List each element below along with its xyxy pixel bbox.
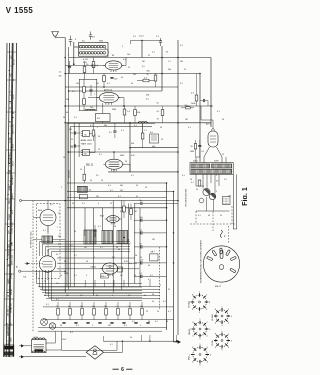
wire ladder joins [166, 203, 178, 263]
svg-text:0,1: 0,1 [118, 196, 121, 198]
title V 1555 [6, 6, 34, 15]
svg-text:5k: 5k [128, 306, 130, 308]
svg-text:0,1: 0,1 [182, 175, 185, 177]
svg-text:0,1: 0,1 [152, 251, 155, 253]
wire v4 base [204, 147, 222, 163]
trimmer C5 [133, 36, 162, 46]
svg-text:0,1: 0,1 [110, 344, 113, 346]
resistor R10 [134, 106, 137, 123]
label sub vals [216, 181, 231, 198]
wire corner y350 [62, 341, 117, 350]
svg-text:0,1: 0,1 [43, 230, 46, 232]
lamp LP2 [49, 323, 55, 329]
svg-text:0,1: 0,1 [121, 130, 124, 132]
label S4 [212, 340, 214, 346]
label S1 [189, 300, 191, 308]
socket big viewed from below [203, 246, 239, 282]
svg-text:5k: 5k [101, 180, 103, 182]
label V4 [206, 123, 211, 126]
label waveband [69, 170, 71, 178]
wire v3 [114, 152, 130, 172]
resistor R5 [154, 74, 157, 88]
svg-text:2: 2 [61, 187, 62, 189]
svg-text:2: 2 [94, 257, 95, 259]
component mid [150, 252, 158, 261]
svg-text:0,1: 0,1 [56, 283, 59, 285]
resistor R50k [181, 105, 194, 109]
svg-text:2k: 2k [184, 69, 186, 71]
svg-text:0,02: 0,02 [131, 155, 135, 157]
svg-text:0,1: 0,1 [74, 255, 77, 257]
wire nest lower [37, 270, 143, 301]
switch bank SW3 [42, 236, 53, 243]
svg-text:5k: 5k [152, 301, 154, 303]
svg-text:25: 25 [168, 289, 170, 291]
wire switch stubs [33, 239, 65, 241]
svg-text:ECH 4: ECH 4 [91, 66, 98, 68]
capacitor C4 [110, 78, 113, 79]
wire L5 stubs [79, 123, 95, 157]
resistor Rk [191, 140, 197, 157]
wire v2 leads [88, 98, 125, 107]
wire bus y91 [69, 90, 162, 92]
svg-text:0,1: 0,1 [163, 301, 166, 303]
label T1 [193, 160, 219, 162]
svg-text:UBL21: UBL21 [189, 328, 191, 335]
svg-text:1,1: 1,1 [168, 61, 171, 63]
socket S5 [189, 344, 212, 367]
box oscillator [96, 114, 111, 122]
wire left col verticals [69, 47, 140, 296]
svg-text:0,1: 0,1 [129, 263, 132, 265]
svg-text:1,1: 1,1 [56, 306, 59, 308]
svg-text:0,1: 0,1 [188, 127, 191, 129]
svg-text:0,1: 0,1 [123, 59, 126, 61]
wire bus y200.5 [19, 199, 178, 201]
svg-text:0,1: 0,1 [99, 154, 102, 156]
svg-text:0,1: 0,1 [128, 295, 131, 297]
label top sockets [215, 286, 222, 288]
svg-text:30: 30 [166, 52, 168, 54]
wire bus y341 [103, 340, 179, 343]
coil L3 [85, 109, 95, 110]
svg-text:50: 50 [166, 321, 168, 323]
svg-text:1M: 1M [84, 247, 87, 249]
wire dashed x159.5 [159, 247, 161, 310]
svg-text:30k: 30k [120, 185, 123, 187]
svg-text:TEAST 11005: TEAST 11005 [81, 143, 92, 146]
coil L1/L2 antenna block [79, 43, 109, 57]
wire rail x211 [210, 58, 212, 128]
svg-text:0,1: 0,1 [198, 215, 201, 217]
tone network [191, 174, 230, 204]
svg-text:0,1: 0,1 [82, 203, 85, 205]
svg-text:6: 6 [121, 367, 124, 373]
wire left rail x65 [64, 38, 66, 293]
resistor R12 [141, 133, 144, 148]
coil L5b [81, 150, 90, 156]
svg-text:20: 20 [121, 77, 123, 79]
svg-text:1M: 1M [228, 196, 231, 198]
svg-text:ANTRIEB 8: ANTRIEB 8 [7, 323, 10, 336]
svg-text:1k: 1k [80, 169, 82, 171]
capacitor ladder y246.9 [134, 244, 167, 249]
arrow mains right [174, 341, 181, 344]
wire t1 leads [196, 157, 227, 163]
svg-text:5084: 5084 [64, 273, 68, 275]
svg-text:20: 20 [160, 127, 162, 129]
svg-text:0,1: 0,1 [100, 247, 103, 249]
wire bus y197.5 [67, 197, 167, 199]
svg-text:2k: 2k [74, 231, 76, 233]
resistor R11 [161, 106, 164, 123]
svg-text:50k: 50k [133, 74, 136, 76]
svg-text:20: 20 [145, 187, 147, 189]
svg-text:0,1: 0,1 [110, 190, 113, 192]
block crystal [150, 132, 159, 143]
svg-text:5084: 5084 [99, 41, 103, 43]
label mid2 [152, 139, 164, 148]
socket S4 [212, 331, 233, 352]
svg-text:498 M: 498 M [11, 289, 13, 295]
svg-text:50: 50 [72, 203, 74, 205]
svg-text:50: 50 [114, 226, 116, 228]
box IF can 1 [79, 79, 97, 110]
caption Fig. 1 [240, 187, 249, 206]
svg-text:6,2 K: 6,2 K [10, 137, 12, 143]
svg-text:0,1: 0,1 [108, 185, 111, 187]
svg-text:0,1: 0,1 [46, 304, 49, 306]
wire bottom bus 3 [44, 295, 160, 297]
label mid vals [127, 103, 160, 121]
svg-text:50: 50 [190, 179, 192, 181]
svg-text:50k: 50k [180, 61, 183, 63]
wire v1 gridline [65, 64, 105, 66]
svg-text:2x1,5: 2x1,5 [139, 36, 144, 38]
resistor R16 [130, 203, 133, 220]
wire rail x178 [177, 40, 179, 335]
wire bus y152 [67, 151, 178, 153]
svg-text:WIEN 580: WIEN 580 [11, 302, 13, 312]
svg-text:5084: 5084 [112, 109, 116, 111]
svg-text:25: 25 [58, 213, 60, 215]
svg-text:0,1: 0,1 [217, 111, 220, 113]
svg-text:8 M: 8 M [10, 170, 12, 174]
svg-text:1M: 1M [96, 83, 99, 85]
capacitor C3 [68, 61, 71, 74]
svg-text:30: 30 [90, 180, 92, 182]
socket S3 [190, 319, 211, 340]
svg-text:0,1: 0,1 [128, 243, 131, 245]
capacitor ladder y276.4 [134, 273, 167, 278]
label big socket [200, 240, 203, 283]
socket S2 [212, 307, 233, 328]
svg-text:6k8: 6k8 [146, 95, 149, 97]
svg-text:50: 50 [135, 255, 137, 257]
resistor R7 [83, 79, 86, 98]
svg-text:Fig. 1: Fig. 1 [240, 187, 247, 206]
svg-text:4–20: 4–20 [83, 59, 89, 61]
label V7 [100, 216, 105, 218]
svg-text:3k: 3k [68, 306, 70, 308]
wire rail x173.5 [173, 192, 175, 343]
svg-text:25: 25 [148, 55, 150, 57]
svg-text:BRUX 322: BRUX 322 [12, 174, 14, 185]
svg-text:AMST 205: AMST 205 [12, 123, 15, 134]
label V1 [91, 66, 98, 68]
svg-text:EBL21: EBL21 [215, 286, 222, 288]
wire top jumper [131, 40, 163, 44]
svg-text:UY21: UY21 [212, 340, 214, 346]
svg-text:M 60: M 60 [8, 278, 10, 284]
svg-text:M 194: M 194 [13, 58, 15, 65]
box small [79, 194, 87, 198]
svg-text:0,1: 0,1 [74, 117, 77, 119]
wire bus y73.5 [65, 73, 200, 75]
svg-text:UBL21: UBL21 [91, 267, 97, 269]
svg-text:30k: 30k [168, 69, 171, 71]
label V8 left [91, 267, 97, 269]
svg-text:0,5: 0,5 [132, 321, 135, 323]
svg-text:2: 2 [70, 195, 71, 197]
misc value labels [43, 36, 227, 347]
svg-text:6,8: 6,8 [92, 37, 95, 39]
svg-text:25: 25 [222, 154, 224, 156]
svg-text:50: 50 [44, 295, 46, 297]
svg-text:5k: 5k [136, 196, 138, 198]
svg-text:6,8: 6,8 [69, 129, 72, 131]
wire bus y183 [67, 182, 167, 184]
svg-text:100: 100 [76, 83, 79, 85]
svg-text:1M: 1M [108, 325, 111, 327]
svg-text:UCH21: UCH21 [189, 300, 191, 308]
arrow pickup [25, 262, 43, 264]
tube V3 EBL21 [103, 159, 124, 171]
wire nest upper [40, 242, 131, 257]
svg-text:POTENTIOM. 8652: POTENTIOM. 8652 [31, 232, 33, 249]
label L5a [81, 139, 92, 142]
capacitor row bottom [62, 323, 149, 324]
svg-text:50: 50 [96, 295, 98, 297]
svg-text:2M: 2M [66, 295, 69, 297]
svg-text:0,1: 0,1 [180, 83, 183, 85]
tube V4 output [208, 128, 218, 147]
wire osc [102, 103, 104, 123]
label V8 [101, 274, 109, 278]
svg-text:0,02: 0,02 [120, 211, 124, 213]
svg-text:60: 60 [66, 112, 68, 114]
svg-text:2: 2 [92, 325, 93, 327]
svg-text:160: 160 [90, 107, 93, 109]
wire drops into bus [85, 280, 150, 287]
arrow mains in2 [19, 356, 86, 359]
svg-text:6,3: 6,3 [70, 332, 73, 334]
svg-text:1k2: 1k2 [80, 306, 83, 308]
svg-text:3: 3 [68, 55, 69, 57]
svg-text:50: 50 [208, 215, 210, 217]
svg-text:V 1555: V 1555 [6, 6, 34, 15]
svg-text:2M: 2M [104, 306, 107, 308]
wire rail x142 top [141, 40, 143, 58]
switch bank SW2 [102, 231, 113, 244]
wire rail x166.5 [166, 183, 168, 330]
label 30k [82, 41, 85, 43]
svg-text:0,1: 0,1 [107, 83, 110, 85]
resistor R9 [123, 106, 126, 123]
svg-text:0,1: 0,1 [80, 295, 83, 297]
svg-text:5k6: 5k6 [131, 143, 134, 145]
svg-text:19 M: 19 M [12, 161, 14, 166]
svg-text:0,1: 0,1 [56, 299, 59, 301]
svg-text:T.A.: T.A. [23, 276, 27, 279]
svg-text:0,1: 0,1 [98, 226, 101, 228]
svg-text:1M: 1M [134, 211, 137, 213]
svg-text:1,5: 1,5 [59, 72, 62, 74]
svg-text:1M: 1M [142, 61, 145, 63]
svg-text:5084: 5084 [190, 151, 194, 153]
label col1 [147, 71, 151, 77]
svg-text:50k: 50k [92, 306, 95, 308]
wire diamond right [104, 341, 123, 352]
svg-text:0,5: 0,5 [109, 132, 112, 134]
resistor R1 [83, 61, 86, 79]
svg-text:1k: 1k [140, 257, 142, 259]
svg-text:1M: 1M [63, 157, 66, 159]
svg-text:25: 25 [134, 275, 136, 277]
svg-text:6,8: 6,8 [112, 257, 115, 259]
svg-text:5k: 5k [56, 254, 58, 256]
capacitor Ck [198, 140, 205, 157]
svg-text:ECH 21: ECH 21 [104, 90, 113, 92]
svg-text:25: 25 [71, 139, 73, 141]
wire mains leads [46, 331, 62, 350]
wire rail x162 [161, 46, 163, 91]
capacitor ladder y232.9 [134, 230, 167, 235]
tube V1 ECH4 [103, 61, 124, 72]
wire v1 plate [122, 58, 126, 66]
antenna A1 [52, 32, 65, 38]
wire bus y87 [65, 86, 178, 88]
svg-text:50: 50 [148, 321, 150, 323]
label V3 [86, 165, 94, 167]
squiggle mark [220, 230, 226, 238]
svg-text:TROCKEN GLEICHR.: TROCKEN GLEICHR. [186, 188, 188, 207]
svg-text:AZ 1: AZ 1 [206, 123, 211, 126]
svg-text:0,1: 0,1 [152, 52, 155, 54]
svg-text:0,1: 0,1 [90, 125, 93, 127]
capacitor C8 [70, 144, 81, 147]
wire bus y147.7 [130, 147, 178, 149]
svg-text:30k: 30k [104, 125, 107, 127]
capacitor ladder y203.4 [134, 200, 167, 205]
wire bottom bus y327.7 [38, 327, 167, 329]
svg-text:MW: MW [11, 242, 13, 246]
wire dashed to socket [213, 212, 229, 244]
svg-text:0,1: 0,1 [180, 45, 183, 47]
svg-text:2M: 2M [66, 99, 69, 101]
svg-text:0,1: 0,1 [134, 125, 137, 127]
svg-text:5: 5 [140, 325, 141, 327]
svg-text:50: 50 [136, 185, 138, 187]
svg-text:2: 2 [216, 175, 217, 177]
wire rail x130 [129, 123, 131, 172]
svg-text:50: 50 [222, 119, 224, 121]
box IF shield frame [67, 123, 155, 286]
svg-text:0,1: 0,1 [155, 321, 158, 323]
box tuning dashed [37, 204, 61, 279]
svg-text:4m: 4m [89, 190, 92, 192]
coil L5a [81, 131, 90, 137]
wire r4 [137, 80, 155, 82]
svg-text:50k: 50k [185, 105, 188, 107]
capacitor ladder y220.2 [134, 217, 167, 222]
capacitor C10 [93, 225, 96, 237]
svg-text:5k: 5k [144, 295, 146, 297]
svg-text:BERO 356: BERO 356 [11, 254, 13, 265]
svg-text:50k: 50k [59, 76, 62, 78]
wire dashed tuning [32, 201, 34, 333]
svg-text:KG 4: KG 4 [9, 214, 11, 220]
svg-text:0,1: 0,1 [50, 204, 53, 206]
svg-text:25: 25 [128, 67, 130, 69]
svg-text:50k: 50k [58, 236, 61, 238]
wire bottom bus 2 [42, 292, 160, 294]
svg-text:0,2: 0,2 [142, 66, 145, 68]
svg-text:5: 5 [86, 275, 87, 277]
terminal P [16, 266, 65, 272]
svg-text:0,5: 0,5 [96, 175, 99, 177]
svg-text:WELLEN: WELLEN [69, 170, 71, 178]
wire bottom bus y331.2 [38, 330, 162, 332]
svg-text:5: 5 [122, 46, 123, 48]
svg-text:5089: 5089 [120, 155, 124, 157]
label S2 [212, 313, 214, 321]
wire bus y106 [65, 105, 213, 107]
arrow mains in1 [19, 345, 32, 348]
wire v4 top [201, 106, 213, 128]
jack J1 diamond [86, 346, 103, 359]
svg-text:50: 50 [71, 147, 73, 149]
capacitor C6 [200, 99, 208, 106]
svg-text:ROHRENFASSUNG VON UNTEN GESEHE: ROHRENFASSUNG VON UNTEN GESEHEN [200, 240, 203, 283]
svg-text:50: 50 [60, 325, 62, 327]
wire stub x142 mid [142, 123, 144, 133]
svg-text:LOND 1500: LOND 1500 [12, 222, 14, 234]
svg-text:2k: 2k [130, 337, 132, 339]
svg-text:25: 25 [98, 149, 100, 151]
svg-text:50: 50 [148, 265, 150, 267]
svg-text:5: 5 [216, 191, 217, 193]
tube V8 EM4 [100, 263, 119, 276]
svg-text:25: 25 [110, 203, 112, 205]
capacitor C8b [89, 85, 92, 96]
wire sub bottom [196, 197, 230, 211]
transformer T1 output [190, 163, 233, 175]
svg-text:30: 30 [116, 247, 118, 249]
wire bus y57.5 [69, 57, 211, 59]
svg-text:30: 30 [64, 261, 66, 263]
socket S1 [189, 292, 211, 314]
tube V7 small [105, 216, 121, 225]
label L5b [81, 143, 92, 146]
svg-text:2: 2 [160, 285, 161, 287]
wire dashed gang [47, 226, 49, 252]
svg-text:1k: 1k [196, 189, 198, 191]
tube V6 [39, 250, 55, 280]
svg-text:LW: LW [11, 322, 13, 325]
wire bus y258 [57, 257, 135, 259]
svg-text:0,1: 0,1 [120, 275, 123, 277]
